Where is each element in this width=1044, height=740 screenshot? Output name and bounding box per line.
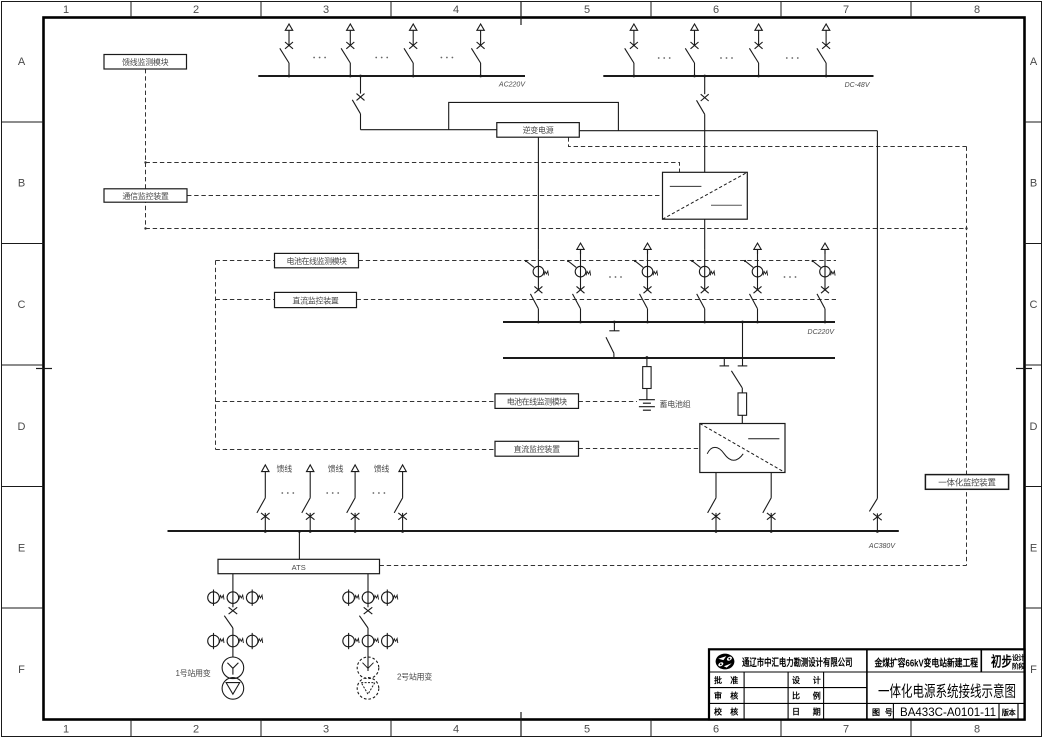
battery GB plates (蓄电池组)	[639, 400, 655, 411]
box: 直流监控装置	[275, 292, 357, 307]
svg-text:1: 1	[63, 4, 69, 16]
DC220V branch 2	[567, 249, 591, 323]
svg-text:准: 准	[730, 675, 738, 685]
fuse FU on inverter input	[738, 388, 747, 424]
transformer T2 (2号站用变, future dashed)	[357, 657, 379, 699]
svg-text:金煤扩容66kV变电站新建工程: 金煤扩容66kV变电站新建工程	[874, 656, 978, 669]
svg-text:2号站用变: 2号站用变	[397, 672, 432, 682]
svg-text:批: 批	[714, 675, 722, 685]
wire: inverter-supply output to right	[579, 130, 877, 132]
breaker branch 1 on DC-48V bus	[625, 24, 638, 77]
wire: dashed DC-monitor 2 to inverter	[579, 448, 700, 450]
transducer row 2 left column	[208, 633, 263, 649]
grid numbers bottom	[63, 724, 980, 736]
svg-text:通辽市中汇电力勘测设计有限公司: 通辽市中汇电力勘测设计有限公司	[742, 656, 853, 669]
DC220V branch 1 (from inverter supply)	[525, 249, 549, 323]
svg-text:5: 5	[584, 724, 590, 736]
node: AC220V drop junction	[359, 75, 362, 78]
converter U1: charger AC/DC box	[663, 172, 748, 219]
svg-text:7: 7	[843, 4, 849, 16]
AC220V section	[258, 76, 877, 172]
svg-text:图: 图	[872, 708, 880, 717]
svg-text:E: E	[1030, 543, 1037, 555]
box: ATS	[218, 559, 380, 573]
svg-text:4: 4	[453, 4, 459, 16]
inverter output switch left	[708, 473, 721, 532]
svg-text:版本: 版本	[1002, 708, 1017, 717]
svg-text:日: 日	[792, 707, 800, 716]
svg-text:DC-48V: DC-48V	[845, 82, 871, 89]
svg-text:逆变电源: 逆变电源	[523, 125, 554, 135]
box: 直流监控装置 2	[495, 441, 579, 456]
svg-text:例: 例	[813, 691, 821, 701]
box: 电池在线监测模块 2	[495, 394, 579, 409]
box: 逆变电源	[497, 123, 580, 138]
svg-text:一体化电源系统接线示意图: 一体化电源系统接线示意图	[878, 682, 1016, 701]
svg-text:3: 3	[323, 724, 329, 736]
svg-text:AC220V: AC220V	[498, 82, 526, 89]
svg-text:6: 6	[713, 4, 719, 16]
wire: inverter-supply down to DC220V bus	[537, 137, 539, 249]
wire: to inverter-supply box	[361, 129, 497, 131]
svg-text:BA433C-A0101-11: BA433C-A0101-11	[900, 705, 996, 719]
ellipsis between DC-48V branches	[658, 57, 671, 59]
node: tie junction on DC220V bus	[613, 321, 616, 324]
bus DC lower section	[503, 357, 835, 359]
breaker branch 3 on DC-48V bus	[749, 24, 762, 77]
title block	[709, 649, 1025, 719]
dashed control wiring	[146, 69, 967, 566]
wire: dashed ATS to right trunk	[380, 565, 967, 567]
svg-text:A: A	[18, 56, 26, 68]
bus DC220V	[503, 321, 835, 323]
svg-text:号: 号	[885, 708, 893, 717]
wire: dashed long horizontal B-row	[146, 228, 967, 230]
battery branch: fuse FU	[643, 358, 651, 400]
grid letters right	[1030, 56, 1038, 676]
grid row ticks right	[1025, 122, 1042, 608]
breaker branch 2 on DC-48V bus	[685, 24, 698, 77]
svg-text:馈线监测模块: 馈线监测模块	[122, 57, 168, 67]
svg-text:初步: 初步	[991, 654, 1012, 670]
wire: dashed comms-box to charger left	[187, 195, 663, 197]
breaker QF on AC220V drop	[357, 94, 365, 101]
svg-text:2: 2	[193, 724, 199, 736]
svg-text:比: 比	[792, 691, 800, 701]
svg-text:电池在线监测模块: 电池在线监测模块	[507, 396, 567, 406]
svg-text:C: C	[1030, 299, 1038, 311]
breaker branch 3 on AC220V bus	[404, 24, 417, 77]
transducer row 2 right column	[343, 633, 398, 649]
feeder branch 4	[394, 465, 407, 533]
breaker branch 2 on AC220V bus	[341, 24, 354, 77]
breaker branch 4 on AC220V bus	[471, 24, 484, 77]
box: 一体化监控装置	[925, 475, 1008, 490]
ellipsis between DC220V branches	[609, 276, 622, 278]
converter U2: inverter DC/AC box	[700, 424, 785, 473]
transfer switch blade	[731, 371, 742, 388]
svg-text:核: 核	[730, 706, 738, 716]
wire: bypass bracket over inverter-supply	[449, 102, 619, 130]
svg-text:核: 核	[730, 691, 738, 701]
wire: dashed breaker bus along DC220V branches	[357, 299, 837, 301]
svg-text:6: 6	[713, 724, 719, 736]
wire: dashed left trunk vertical	[215, 261, 217, 450]
node: DC-48V drop junction	[703, 75, 706, 78]
inverter output switch right	[763, 473, 776, 532]
svg-text:电池在线监测模块: 电池在线监测模块	[287, 256, 347, 266]
svg-text:期: 期	[813, 706, 821, 716]
svg-text:计: 计	[813, 675, 821, 685]
feeder branch 2	[302, 465, 315, 533]
wire: DC-48V drop to charger	[704, 114, 706, 172]
svg-text:F: F	[1030, 664, 1037, 676]
grid column ticks bottom	[131, 720, 911, 737]
wire: dashed battery-monitor 2 to battery	[579, 401, 638, 403]
grid letters left	[18, 56, 26, 676]
DC220V branch 6	[812, 249, 836, 323]
svg-text:DC220V: DC220V	[808, 329, 836, 336]
transformer T1 (1号站用变)	[222, 657, 244, 699]
svg-text:通信监控装置: 通信监控装置	[122, 191, 168, 201]
svg-text:C: C	[18, 299, 26, 311]
svg-text:校: 校	[714, 706, 723, 716]
DC220V branch 4 (from charger)	[691, 249, 715, 323]
DC220V branch 5	[744, 249, 768, 323]
node: junction dot on dashed trunk at B-row	[144, 161, 146, 163]
grid row ticks left	[2, 122, 44, 608]
bus AC380V	[168, 530, 899, 532]
bus AC220V	[258, 75, 525, 77]
ellipsis between feeders	[281, 492, 294, 494]
svg-text:馈线: 馈线	[374, 464, 390, 474]
svg-text:3: 3	[323, 4, 329, 16]
wire: drop from AC220V bus	[360, 76, 362, 94]
title block outer border	[709, 649, 1025, 719]
wire: dashed left trunk to DC-monitor box	[216, 299, 275, 301]
feeder branch 1	[257, 465, 270, 533]
transducer row 1 left column	[208, 590, 263, 606]
svg-text:4: 4	[453, 724, 459, 736]
svg-text:蓄电池组: 蓄电池组	[660, 399, 691, 409]
svg-text:直流监控装置: 直流监控装置	[292, 295, 338, 305]
breaker QF on DC-48V drop	[701, 94, 709, 101]
breaker branch 1 on AC220V bus	[280, 24, 293, 77]
node: battery branch junction	[646, 356, 649, 359]
svg-text:D: D	[1030, 421, 1038, 433]
svg-text:1号站用变: 1号站用变	[176, 668, 211, 678]
transducer row 1 right column	[343, 590, 398, 606]
svg-text:ATS: ATS	[292, 563, 306, 572]
svg-text:E: E	[18, 543, 25, 555]
wire: dashed left trunk to DC-monitor box 2	[216, 449, 496, 451]
grid numbers top	[63, 4, 980, 16]
svg-text:直流监控装置: 直流监控装置	[514, 444, 560, 454]
DC220V branch 3	[634, 249, 658, 323]
svg-text:设计: 设计	[1012, 653, 1025, 662]
svg-text:8: 8	[974, 4, 980, 16]
svg-text:阶段: 阶段	[1012, 662, 1025, 671]
svg-text:审: 审	[714, 691, 722, 701]
ATS output right column	[359, 574, 372, 671]
svg-text:1: 1	[63, 724, 69, 736]
wire: dashed right trunk vertical	[966, 147, 968, 566]
wire: dashed left trunk to battery-monitor box 2	[216, 401, 496, 403]
svg-text:F: F	[18, 664, 25, 676]
grid column ticks top	[131, 2, 911, 18]
wire: AC380V bus to ATS	[298, 531, 300, 559]
transfer contact B from DC220V bus	[738, 322, 748, 366]
wire: inverter-supply AC output down to AC380V bus	[869, 131, 881, 532]
svg-text:8: 8	[974, 724, 980, 736]
svg-text:2: 2	[193, 4, 199, 16]
svg-text:AC380V: AC380V	[868, 543, 896, 550]
transfer contact A from lower bus	[720, 358, 730, 366]
ellipsis between AC220V branches	[313, 57, 326, 59]
title block inner dividers	[709, 649, 1025, 719]
svg-text:馈线: 馈线	[277, 464, 293, 474]
company logo	[716, 654, 735, 670]
svg-text:A: A	[1030, 56, 1038, 68]
bus DC-48V	[603, 75, 873, 77]
wire: dashed to charger top	[146, 163, 680, 173]
svg-text:B: B	[1030, 178, 1037, 190]
wire: dashed trunk from feeder-monitor box down	[145, 69, 147, 229]
svg-text:7: 7	[843, 724, 849, 736]
svg-text:馈线: 馈线	[328, 464, 344, 474]
wire: charger output down to DC220V bus	[704, 219, 706, 249]
svg-text:D: D	[18, 421, 26, 433]
box: 电池在线监测模块	[275, 253, 359, 267]
wire: drop from DC-48V bus	[704, 76, 706, 94]
wire: dashed left trunk to battery-monitor box	[216, 260, 275, 262]
feeder branch 3	[347, 465, 360, 533]
box: 馈线监测模块	[104, 55, 187, 70]
breaker branch 4 on DC-48V bus	[817, 24, 830, 77]
wire: dashed from inverter-supply bottom to right trunk	[569, 137, 967, 146]
box: 通信监控装置	[104, 189, 187, 202]
svg-text:B: B	[18, 178, 25, 190]
disconnector between DC buses	[606, 322, 620, 358]
svg-text:5: 5	[584, 4, 590, 16]
svg-text:一体化监控装置: 一体化监控装置	[938, 477, 996, 487]
ATS output left column	[224, 574, 237, 657]
svg-text:设: 设	[792, 675, 800, 685]
wire: dashed sensor bus along DC220V branches	[359, 260, 837, 262]
